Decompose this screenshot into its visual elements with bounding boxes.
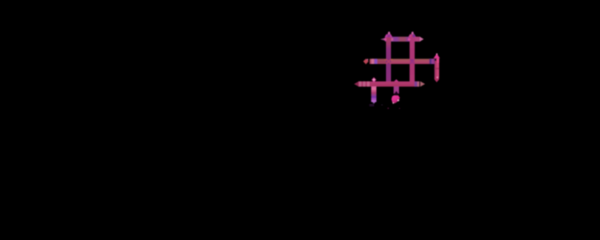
- H1 right arrowhead: [420, 37, 424, 42]
- vertical bar V2: [410, 37, 415, 87]
- V3 bottom light sparkle: [437, 77, 439, 79]
- V1 up arrowhead (wide trapezoid): [385, 34, 393, 37]
- V3 pointed bottom: [434, 77, 439, 82]
- D2 bar notch (dark): [394, 91, 399, 94]
- sparkle dot at V1xH2 crossing (orange, left): [385, 59, 386, 60]
- horizontal bar H2 (middle): [370, 59, 435, 64]
- H3 right pink band: [417, 81, 419, 86]
- V1 arrowhead purple core: [387, 35, 390, 37]
- D2 down-left arrow blob: [391, 95, 399, 103]
- faint speckle under D2: [387, 108, 389, 109]
- H2 left dark-rose section overlay: [377, 59, 386, 64]
- V1 crossing right pink streak: [391, 38, 393, 41]
- H3 left arrowhead: [354, 82, 358, 87]
- H3 right arrowhead (detached, dusty rose): [420, 81, 425, 87]
- V2 up arrowhead (wide trapezoid): [408, 34, 416, 37]
- V3 notch below arrow (dark): [434, 58, 436, 61]
- D1 tapered tip: [372, 102, 375, 104]
- descender D2 bar: [394, 87, 399, 94]
- V1 arrowhead pale tip: [388, 32, 391, 35]
- sparkle dot at V1xH2 crossing (orange, right): [391, 59, 392, 60]
- V2 arrowhead red dot: [411, 35, 412, 37]
- vertical bar V1: [386, 37, 391, 87]
- H2 right purple stub (striped): [429, 59, 434, 64]
- V3 bright right knob: [437, 58, 439, 63]
- D1 sparkle light core: [373, 79, 375, 81]
- D2 blob light spot: [398, 100, 400, 102]
- H3 left light stripes: [359, 81, 361, 86]
- H1 left arrowhead: [380, 38, 385, 41]
- vertical bar V3 (short, right): [434, 58, 439, 77]
- V1 crossing pink diamond artifact: [384, 38, 387, 41]
- sparkle dot at V2xH2 crossing (purple): [411, 59, 412, 60]
- H2 left diamond arrowhead: [363, 59, 368, 65]
- horizontal bar H3 (bottom): [358, 81, 419, 86]
- H2 left purple stripe: [374, 59, 377, 64]
- H2 left pink stripe: [371, 59, 374, 64]
- V2 arrowhead pale tip: [411, 32, 414, 35]
- V3 darker mid band: [434, 68, 439, 70]
- descender D1 bar: [371, 87, 376, 103]
- purple X artifact at V2xH2 crossing: [410, 59, 415, 64]
- V3 arrowhead pale apex: [436, 53, 438, 54]
- V2 crossing pink diamond artifact: [408, 38, 411, 41]
- V2 arrowhead purple core: [412, 35, 415, 38]
- horizontal bar H1 (top): [385, 37, 419, 42]
- D2 blob tip glint: [393, 102, 394, 103]
- H3 right purple band: [414, 81, 417, 86]
- faint speckles under D1: [369, 104, 374, 106]
- descender D2 bump above H3: [394, 79, 399, 81]
- V3 up arrowhead: [434, 54, 440, 59]
- H2 diamond pink glint: [367, 59, 368, 60]
- red X artifact at V1xH2 crossing: [386, 59, 391, 64]
- descender D1 up-tip sparkle above H3: [372, 77, 377, 82]
